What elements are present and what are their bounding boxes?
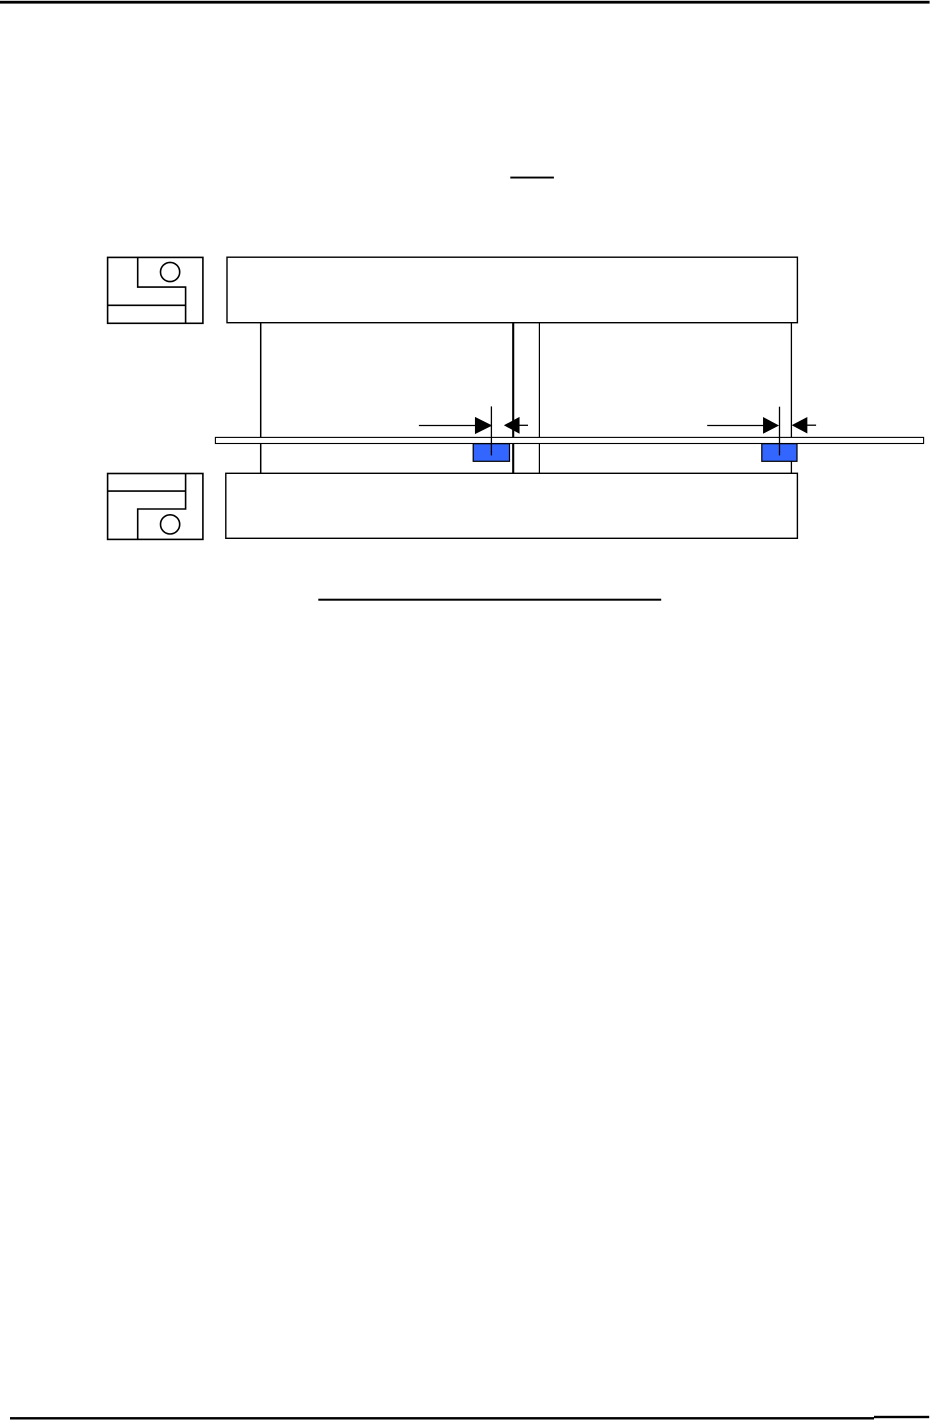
- tie bar right: [790, 323, 792, 474]
- clamp pad left (blue): [473, 444, 509, 462]
- title underline (blank heading): [510, 177, 554, 179]
- caption underline: [318, 599, 661, 601]
- tie bar left: [260, 323, 262, 474]
- icon: lower mold half (bottom-left): [108, 474, 203, 540]
- bottom platen: [226, 473, 798, 538]
- clamping plate: [215, 437, 923, 443]
- icon: upper mold half (top-left): [108, 257, 203, 323]
- footer rule left segment: [10, 1417, 874, 1419]
- top platen: [227, 257, 797, 323]
- centre line of right pad: [779, 407, 781, 456]
- dimension arrow right-pointing-left: [793, 418, 816, 433]
- header rule: [0, 1, 930, 4]
- dimension arrow right-pointing-right: [707, 418, 778, 433]
- centre line of left pad: [490, 406, 492, 455]
- mold edge line (thin, centre-right): [538, 323, 540, 474]
- mold edge line (thick, centre-left): [512, 323, 514, 474]
- footer rule right segment: [874, 1416, 929, 1418]
- dimension arrow left-pointing-left: [505, 418, 528, 433]
- clamp pad right (blue): [762, 444, 797, 462]
- dimension arrow left-pointing-right: [419, 418, 491, 434]
